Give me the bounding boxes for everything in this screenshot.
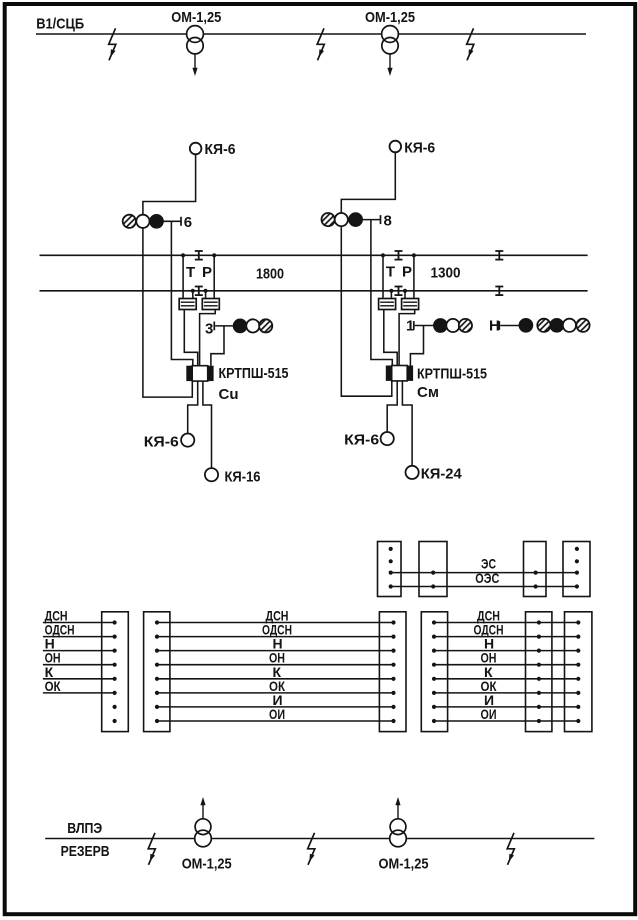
wire ОК mid bbox=[157, 692, 394, 694]
wire Н left bbox=[43, 650, 115, 652]
lamp white bbox=[136, 215, 149, 228]
lamp white Н4 bbox=[563, 319, 576, 332]
terminal strip I bbox=[526, 612, 552, 732]
terminal tick 3 bbox=[213, 322, 215, 331]
lamp black bbox=[150, 215, 163, 228]
svg-text:1300: 1300 bbox=[431, 265, 461, 282]
svg-text:Н: Н bbox=[489, 317, 500, 334]
svg-text:КЯ-6: КЯ-6 bbox=[205, 141, 236, 158]
wire ТР left drop bbox=[182, 255, 184, 298]
wire top feeder line bbox=[36, 33, 586, 35]
wire ОК right bbox=[434, 692, 578, 694]
nodes strip H bbox=[432, 620, 436, 723]
lamp white 3-row bbox=[246, 319, 259, 332]
svg-text:1800: 1800 bbox=[256, 266, 284, 283]
lamp black Н3 bbox=[550, 319, 563, 332]
wire ОН left bbox=[43, 664, 115, 666]
wire ТР right drop right unit bbox=[413, 255, 415, 298]
terminal strip D bbox=[563, 542, 590, 597]
terminal tick 8 bbox=[380, 215, 382, 224]
node line2 right-unit left bbox=[389, 289, 393, 293]
surge arrow (lightning) 2 bbox=[317, 28, 324, 60]
node A2 bbox=[389, 559, 393, 563]
terminal tick 1 bbox=[413, 321, 415, 330]
terminal strip G bbox=[379, 612, 406, 732]
svg-text:ВЛПЭ: ВЛПЭ bbox=[67, 820, 102, 837]
node D1 bbox=[575, 547, 579, 551]
lamp hatched 1-row bbox=[459, 319, 472, 332]
cable box КЯ-6 bottom left bbox=[181, 434, 194, 447]
terminal tick 6 bbox=[180, 217, 182, 226]
node D4 bbox=[575, 584, 579, 588]
lamp hatched right bbox=[322, 213, 335, 226]
wire ОЭС bbox=[391, 586, 577, 588]
surge arrow (lightning) 5 bbox=[308, 833, 315, 865]
terminal strip H bbox=[421, 612, 447, 732]
wire ОДСН right bbox=[434, 636, 578, 638]
svg-text:КЯ-6: КЯ-6 bbox=[344, 432, 379, 449]
svg-text:КЯ-24: КЯ-24 bbox=[421, 465, 463, 482]
wire stub line2 to arrester R bbox=[205, 291, 207, 299]
coupling box КРТПШ-515 right: black bar R bbox=[407, 366, 413, 381]
svg-text:КЯ-6: КЯ-6 bbox=[404, 140, 435, 157]
wire main line 2 bbox=[40, 290, 588, 292]
wire lamp row to terminal 8 bbox=[362, 219, 380, 221]
wire branch 1-row to box bbox=[410, 326, 423, 366]
wire box to КЯ-6 bottom right bbox=[387, 381, 397, 432]
wire ТР left drop right unit bbox=[382, 255, 384, 298]
node D3 bbox=[575, 571, 579, 575]
wire arrester R to box bbox=[200, 310, 216, 366]
coupling box КРТПШ-515 left: black bar L bbox=[186, 366, 192, 381]
svg-text:ОМ-1,25: ОМ-1,25 bbox=[379, 856, 429, 873]
node line2 left bbox=[191, 289, 195, 293]
wire box to КЯ-6 bottom bbox=[188, 381, 198, 434]
svg-text:КРТПШ-515: КРТПШ-515 bbox=[417, 365, 487, 382]
terminal strip J bbox=[565, 612, 592, 732]
coupling box КРТПШ-515 left: black bar R bbox=[208, 366, 214, 381]
lamp hatched Н5 bbox=[576, 319, 589, 332]
wire long left branch from white lamp to box bottom bbox=[143, 228, 192, 397]
wire Н right bbox=[434, 650, 578, 652]
insulator line1 left bbox=[195, 251, 203, 260]
wire from КЯ-6 down to lamp head right bbox=[341, 152, 395, 213]
svg-text:ОК: ОК bbox=[45, 678, 61, 694]
svg-text:ОИ: ОИ bbox=[269, 706, 285, 722]
terminal tick Н bbox=[498, 321, 500, 330]
wire box to КЯ-16 bbox=[203, 381, 212, 468]
wire branch down from lamp row bbox=[171, 221, 192, 365]
wire ОН right bbox=[434, 664, 578, 666]
cable box КЯ-6 bottom right bbox=[381, 432, 394, 445]
svg-text:3: 3 bbox=[205, 321, 213, 338]
transformer ОМ-1,25 T3 bbox=[195, 797, 212, 847]
node B2 bbox=[431, 584, 435, 588]
lamp black right bbox=[349, 213, 362, 226]
cable box КЯ-16 bbox=[205, 468, 218, 481]
insulator line2 mid bbox=[395, 287, 403, 296]
wire ОДСН left bbox=[43, 636, 115, 638]
terminal strip C bbox=[524, 542, 547, 597]
svg-text:РЕЗЕРВ: РЕЗЕРВ bbox=[61, 843, 110, 860]
node A4 bbox=[389, 584, 393, 588]
wire stub line2 arrester L right unit bbox=[390, 291, 392, 299]
nodes strip F bbox=[155, 620, 159, 723]
lamp white 1-row bbox=[446, 319, 459, 332]
lamp black Н1 bbox=[519, 319, 532, 332]
svg-text:КЯ-16: КЯ-16 bbox=[225, 469, 261, 486]
node A3 bbox=[389, 571, 393, 575]
node A1 bbox=[389, 547, 393, 551]
svg-text:Т: Т bbox=[186, 264, 195, 281]
svg-text:8: 8 bbox=[384, 213, 392, 230]
node D2 bbox=[575, 559, 579, 563]
svg-text:КРТПШ-515: КРТПШ-515 bbox=[219, 365, 289, 382]
surge arrow (lightning) 6 bbox=[507, 833, 514, 865]
insulator line2 right bbox=[495, 287, 503, 296]
wire box to КЯ-24 bbox=[402, 381, 412, 466]
nodes strip G bbox=[391, 620, 395, 723]
insulator line1 mid bbox=[395, 251, 403, 260]
svg-text:КЯ-6: КЯ-6 bbox=[144, 433, 179, 450]
cable box КЯ-24 bbox=[406, 466, 419, 479]
wire ДСН mid bbox=[157, 622, 394, 624]
transformer ОМ-1,25 T1 bbox=[187, 26, 204, 76]
transformer ОМ-1,25 T4 bbox=[390, 797, 407, 847]
node line1 right-unit left bbox=[381, 253, 385, 257]
wire from КЯ-6 down to lamp head bbox=[143, 154, 196, 215]
arrester L bbox=[179, 299, 196, 310]
node line1 right-unit right bbox=[412, 253, 416, 257]
insulator line2 left bbox=[195, 287, 203, 296]
wire arrester L to box right unit bbox=[384, 310, 397, 366]
node B1 bbox=[431, 571, 435, 575]
svg-text:ОЭС: ОЭС bbox=[475, 570, 499, 586]
wire branch down from lamp row right bbox=[371, 220, 392, 366]
svg-text:Р: Р bbox=[202, 264, 212, 281]
node line1 right bbox=[212, 253, 216, 257]
wire arrester L to box bbox=[184, 310, 197, 366]
wire Н mid bbox=[157, 650, 394, 652]
arrester R bbox=[202, 299, 219, 310]
coupling box КРТПШ-515 left: white body bbox=[192, 366, 208, 381]
wire К mid bbox=[157, 678, 394, 680]
wire ОН mid bbox=[157, 664, 394, 666]
svg-text:ОИ: ОИ bbox=[481, 706, 497, 722]
wire ДСН left bbox=[43, 622, 115, 624]
node C2 bbox=[534, 584, 538, 588]
wire ЭС bbox=[391, 572, 577, 574]
node line2 right-unit right bbox=[403, 289, 407, 293]
surge arrow (lightning) 1 bbox=[109, 28, 116, 60]
surge arrow (lightning) 3 bbox=[467, 28, 474, 60]
insulator line1 right bbox=[495, 251, 503, 260]
node line1 left bbox=[181, 253, 185, 257]
lamp white right bbox=[335, 213, 348, 226]
transformer ОМ-1,25 T2 bbox=[382, 26, 399, 76]
wire terminal 1 to lamps bbox=[415, 325, 434, 327]
surge arrow (lightning) 4 bbox=[148, 833, 155, 865]
wire bottom feeder line bbox=[45, 838, 594, 840]
nodes strip E bbox=[113, 620, 117, 723]
terminal strip E bbox=[102, 612, 129, 732]
cable box КЯ-6 top bbox=[190, 143, 202, 155]
wire ТР right drop bbox=[213, 255, 215, 298]
wire branch 3-row to box bbox=[211, 326, 224, 366]
arrester R right unit bbox=[402, 299, 419, 310]
terminal strip A bbox=[378, 542, 402, 597]
wire ОИ right bbox=[434, 720, 578, 722]
nodes strip I bbox=[537, 620, 541, 723]
svg-text:Т: Т bbox=[386, 264, 395, 281]
lamp hatched 3-row bbox=[259, 319, 272, 332]
svg-text:ОМ-1,25: ОМ-1,25 bbox=[171, 9, 221, 26]
svg-text:Cu: Cu bbox=[219, 386, 239, 403]
lamp black 1-row bbox=[434, 319, 447, 332]
wire stub line2 arrester R right unit bbox=[404, 291, 406, 299]
wire stub line2 to arrester L bbox=[192, 291, 194, 299]
node line2 right bbox=[204, 289, 208, 293]
coupling box КРТПШ-515 right: black bar L bbox=[386, 366, 392, 381]
wire К right bbox=[434, 678, 578, 680]
wire ДСН right bbox=[434, 622, 578, 624]
wire И right bbox=[434, 706, 578, 708]
wire lamp row to terminal 6 bbox=[163, 220, 181, 222]
wire К left bbox=[43, 678, 115, 680]
terminal strip F bbox=[144, 612, 170, 732]
svg-text:ОМ-1,25: ОМ-1,25 bbox=[365, 9, 415, 26]
wire terminal 3 to lamps bbox=[215, 325, 234, 327]
terminal strip B bbox=[419, 542, 447, 597]
wire И mid bbox=[157, 706, 394, 708]
wire ОИ mid bbox=[157, 720, 394, 722]
coupling box КРТПШ-515 right: white body bbox=[392, 366, 408, 381]
lamp hatched Н2 bbox=[537, 319, 550, 332]
wire ОДСН mid bbox=[157, 636, 394, 638]
wire ОК left bbox=[43, 692, 115, 694]
wire arrester R to box right unit bbox=[399, 310, 415, 366]
nodes strip J bbox=[576, 620, 580, 723]
svg-text:В1/СЦБ: В1/СЦБ bbox=[36, 16, 84, 33]
lamp hatched bbox=[123, 215, 136, 228]
node C1 bbox=[534, 571, 538, 575]
svg-text:ОМ-1,25: ОМ-1,25 bbox=[182, 856, 232, 873]
wire long left branch right unit bbox=[341, 226, 392, 396]
lamp black 3-row bbox=[234, 319, 247, 332]
cable box КЯ-6 top right bbox=[390, 141, 402, 153]
svg-text:Р: Р bbox=[402, 264, 412, 281]
svg-text:См: См bbox=[417, 384, 439, 401]
wire main line 1 bbox=[40, 254, 588, 256]
wire terminal Н to lamps bbox=[500, 325, 519, 327]
svg-text:6: 6 bbox=[184, 214, 192, 231]
arrester L right unit bbox=[379, 299, 396, 310]
